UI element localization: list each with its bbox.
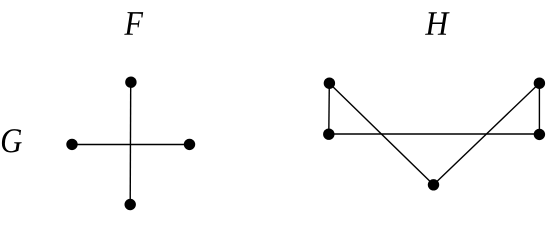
- wire: H middle horizontal edge: [329, 133, 540, 135]
- label H: [425, 12, 450, 35]
- node F-right: [184, 139, 195, 150]
- node F-top: [125, 77, 136, 88]
- wire: H right vertical edge: [538, 83, 540, 134]
- wire: F vertical edge: [129, 82, 132, 204]
- wire: H left diagonal edge: [329, 83, 433, 185]
- node H-top-left: [324, 78, 335, 89]
- node F-left: [66, 139, 77, 150]
- label G: [2, 129, 22, 152]
- node F-bottom: [125, 199, 136, 210]
- node H-bottom-right: [534, 129, 545, 140]
- wire: H right diagonal edge: [434, 83, 540, 185]
- node H-bottom-left: [323, 129, 334, 140]
- label F: [124, 12, 143, 35]
- wire: H left vertical edge: [328, 83, 331, 134]
- wire: F horizontal edge: [72, 144, 190, 146]
- node H-bottom-middle: [428, 179, 439, 190]
- node H-top-right: [534, 78, 545, 89]
